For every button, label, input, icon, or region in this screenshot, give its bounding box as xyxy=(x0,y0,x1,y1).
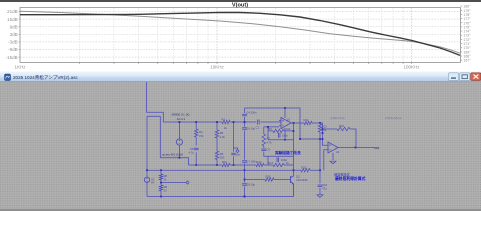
label SINE source xyxy=(172,113,190,122)
svg-text:15dB: 15dB xyxy=(7,17,18,22)
svg-text:-3dB: -3dB xyxy=(8,40,18,45)
wire ground rail xyxy=(147,196,294,198)
svg-text:10k: 10k xyxy=(322,128,327,132)
wire U1 output xyxy=(291,122,328,145)
phase curve V(out) xyxy=(20,11,460,53)
resistor R8 xyxy=(159,174,167,181)
op-amp U1 xyxy=(279,108,291,141)
svg-text:-15dB: -15dB xyxy=(6,55,18,60)
annotation text1 xyxy=(274,150,301,155)
svg-text:4.7µ: 4.7µ xyxy=(189,150,195,154)
feedback box1 R3 C3 xyxy=(268,127,294,140)
ground at C10 xyxy=(317,195,323,198)
svg-text:実験回路①改良: 実験回路①改良 xyxy=(274,150,301,155)
svg-text:Q1: Q1 xyxy=(296,175,300,179)
minimize button xyxy=(449,73,459,81)
svg-text:9V: 9V xyxy=(151,181,154,185)
svg-text:R13: R13 xyxy=(322,124,327,128)
capacitor C2 xyxy=(261,148,270,152)
wire Q1 base xyxy=(245,179,291,181)
svg-text:U1: U1 xyxy=(287,118,291,122)
voltage source V2 xyxy=(144,177,154,196)
svg-text:C6 10µ: C6 10µ xyxy=(246,127,255,131)
svg-text:-9dB: -9dB xyxy=(8,47,18,52)
capacitor C9 xyxy=(231,152,240,156)
svg-text:10n: 10n xyxy=(236,152,241,156)
svg-text:C8 10µ: C8 10µ xyxy=(246,183,255,187)
svg-text:R3: R3 xyxy=(268,127,272,131)
capacitor C4 xyxy=(242,110,257,115)
svg-text:V2: V2 xyxy=(151,177,155,181)
svg-text:R5: R5 xyxy=(220,131,224,135)
close button xyxy=(471,73,481,81)
svg-text:4.49mVrms: 4.49mVrms xyxy=(330,116,345,120)
grid dots xyxy=(0,82,481,209)
wire signal return xyxy=(160,116,188,165)
magnitude curve V(out) xyxy=(20,12,460,55)
svg-text:10KHz: 10KHz xyxy=(210,64,224,69)
divider leg R8 R9 xyxy=(160,170,186,196)
wire minus input net xyxy=(264,126,279,156)
resistor R14 xyxy=(304,118,313,125)
svg-text:C5: C5 xyxy=(190,147,194,151)
spice directive .ac xyxy=(162,152,183,156)
svg-text:C2: C2 xyxy=(267,148,271,152)
svg-text:100p: 100p xyxy=(281,158,287,162)
svg-text:U2: U2 xyxy=(336,150,340,154)
wire V2 feed bridge xyxy=(147,116,160,177)
voltage source V1 xyxy=(176,121,182,159)
node divider leg R4 C5 xyxy=(195,121,197,166)
resistor R9 xyxy=(159,185,167,193)
capacitor C8 xyxy=(242,183,255,187)
capacitor C10 xyxy=(318,183,328,190)
capacitor C6 xyxy=(242,127,255,131)
svg-text:167°: 167° xyxy=(463,59,471,63)
capacitor C7 xyxy=(242,160,257,164)
svg-text:330: 330 xyxy=(220,156,225,160)
svg-text:R8: R8 xyxy=(164,174,168,178)
svg-text:100p: 100p xyxy=(282,134,288,138)
feedback box2 R17 C11 xyxy=(268,156,294,167)
supply column xyxy=(244,108,246,197)
ground at U2 xyxy=(330,161,336,164)
svg-text:R9: R9 xyxy=(164,185,168,189)
capacitor C5 xyxy=(189,147,199,155)
svg-text:3dB: 3dB xyxy=(10,32,18,37)
svg-text:2SC1815: 2SC1815 xyxy=(296,178,308,182)
plot grid xyxy=(19,6,463,64)
resistor R5 xyxy=(215,130,225,139)
svg-text:C7 100n: C7 100n xyxy=(246,160,257,164)
svg-text:R17: R17 xyxy=(268,161,273,165)
window titlebar icon xyxy=(5,74,11,81)
wire node line xyxy=(189,164,268,166)
svg-text:2.2k: 2.2k xyxy=(220,135,226,139)
resistor R11 xyxy=(222,160,230,167)
svg-text:R10: R10 xyxy=(257,160,262,164)
svg-text:100KHz: 100KHz xyxy=(403,64,420,69)
svg-text:100n: 100n xyxy=(250,110,256,114)
node leg C9 flag xyxy=(233,121,238,166)
svg-text:9dB: 9dB xyxy=(10,24,18,29)
svg-text:R15: R15 xyxy=(339,124,344,128)
svg-text:R12: R12 xyxy=(302,166,307,170)
label out xyxy=(375,146,380,150)
annotation text2 xyxy=(334,172,366,181)
svg-text:1KHz: 1KHz xyxy=(14,64,26,69)
svg-text:AC 0.1: AC 0.1 xyxy=(177,117,186,121)
svg-text:.ac dec 401 10 1M: .ac dec 401 10 1M xyxy=(162,152,183,156)
svg-text:4.7k: 4.7k xyxy=(267,140,273,144)
transistor Q1 xyxy=(291,175,309,197)
svg-text:R2: R2 xyxy=(222,118,226,122)
wire top supply rail xyxy=(245,107,323,140)
resistor R2 xyxy=(222,118,231,130)
svg-text:47µ: 47µ xyxy=(322,186,327,190)
svg-text:R14: R14 xyxy=(304,118,309,122)
svg-text:V(out): V(out) xyxy=(232,2,248,8)
svg-text:10: 10 xyxy=(164,189,167,193)
svg-text:21dB: 21dB xyxy=(7,9,18,14)
resistor R15 xyxy=(337,124,350,131)
svg-text:R11: R11 xyxy=(222,160,227,164)
plot labels xyxy=(6,2,472,69)
svg-text:C10: C10 xyxy=(322,183,327,187)
net flag A xyxy=(236,149,239,152)
window title text xyxy=(13,74,78,81)
wire main bus xyxy=(163,121,281,123)
svg-text:C1: C1 xyxy=(256,126,260,130)
wire U2 output xyxy=(338,147,375,149)
node leg R5 R6 xyxy=(216,121,218,166)
maximize button xyxy=(460,73,470,81)
svg-text:47k: 47k xyxy=(199,134,204,138)
wire input staircase xyxy=(147,82,164,122)
svg-text:R6: R6 xyxy=(220,152,224,156)
net flag FB xyxy=(186,181,189,184)
resistor R10 xyxy=(256,160,264,167)
svg-text:R4: R4 xyxy=(199,130,203,134)
resistor R6 xyxy=(215,151,224,160)
wire U2 input network xyxy=(319,132,328,195)
svg-text:0.915mVrms: 0.915mVrms xyxy=(385,116,402,120)
svg-text:R16: R16 xyxy=(266,174,271,178)
svg-text:最終段利得計算式: 最終段利得計算式 xyxy=(335,176,366,181)
resistor R16 xyxy=(265,174,274,181)
wire feedback line xyxy=(146,169,320,171)
wire out1 drop xyxy=(293,123,295,176)
svg-text:10k: 10k xyxy=(286,127,291,131)
annotation measure2 xyxy=(385,116,402,120)
annotation measure1 xyxy=(330,116,345,120)
svg-text:2025 1024青松アンプVR(2).asc: 2025 1024青松アンプVR(2).asc xyxy=(13,74,78,81)
svg-text:out: out xyxy=(375,146,380,150)
resistor R4 xyxy=(195,129,204,138)
svg-text:SINE(0 0.1 1K): SINE(0 0.1 1K) xyxy=(172,113,190,117)
wire U2 feedback xyxy=(323,129,357,148)
svg-text:R7: R7 xyxy=(267,137,271,141)
op-amp U2 xyxy=(328,142,340,160)
resistor R13 xyxy=(318,123,327,139)
capacitor C1 xyxy=(256,120,260,130)
resistor R7 xyxy=(262,134,272,146)
resistor R12 xyxy=(301,166,310,172)
